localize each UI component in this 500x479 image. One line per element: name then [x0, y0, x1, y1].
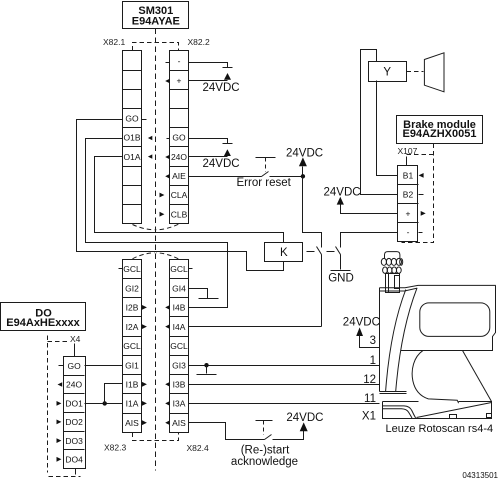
arrow at plus X82.2: [165, 79, 170, 84]
GND rail bar: [331, 270, 351, 272]
SM301 title text: [132, 5, 180, 27]
document number 04313501: [462, 471, 498, 479]
svg-text:24VDC: 24VDC: [286, 147, 323, 159]
wire 24O X82.2 to 24VDC arrow: [189, 156, 228, 158]
svg-text:GO: GO: [125, 113, 139, 123]
wire AIE to error-reset switch: [189, 176, 262, 178]
svg-text:Y: Y: [383, 66, 391, 78]
junction node DO1: [103, 401, 107, 405]
svg-text:GCL: GCL: [170, 341, 188, 351]
arrow at AIE: [165, 174, 170, 179]
arrow at I3A: [165, 401, 170, 406]
X82.1 terminal labels GO O1B O1A: [123, 113, 140, 161]
wire AIS to restart switch: [189, 423, 265, 440]
svg-text:B2: B2: [403, 190, 414, 200]
error reset pushbutton actuator: [256, 158, 276, 172]
junction node error reset: [301, 174, 305, 178]
label X107: [398, 146, 418, 156]
scanner pin labels 3 1 12 11 X1: [362, 335, 376, 422]
scanner front window arc outer: [386, 290, 406, 392]
brake symbol (cone): [424, 53, 444, 92]
scanner body right edge: [463, 286, 496, 351]
24VDC supply arrow restart: [300, 422, 308, 431]
label 24VDC restart: [286, 412, 323, 424]
X82.3 terminal labels: [123, 264, 141, 428]
svg-text:I4B: I4B: [173, 303, 186, 313]
label Y: [383, 66, 391, 78]
svg-text:X82.3: X82.3: [104, 443, 126, 453]
svg-text:(Re-)start: (Re-)start: [241, 444, 290, 456]
terminal strip X4: [64, 357, 86, 469]
arrow at I3B: [165, 382, 170, 387]
svg-text:E94AxHExxxx: E94AxHExxxx: [6, 317, 80, 329]
svg-text:DO1: DO1: [65, 398, 83, 408]
wire O1B X82.1 to I4B X82.4: [86, 139, 228, 308]
label (Re-)start acknowledge: [231, 444, 298, 468]
scanner body top edge: [380, 285, 496, 287]
dashed module bracket bottom (X82.3/X82.4): [133, 433, 179, 441]
svg-text:AIS: AIS: [125, 418, 139, 428]
label 24VDC at plus: [203, 82, 240, 94]
svg-text:I1A: I1A: [126, 399, 139, 409]
svg-text:K: K: [280, 247, 288, 259]
svg-text:X1: X1: [362, 410, 376, 422]
wire B2 up over to brake coil Y: [361, 50, 398, 195]
label GND: [328, 273, 354, 285]
stub brake minus right: [419, 232, 423, 234]
X82.2 terminal labels: [171, 56, 188, 219]
svg-text:B1: B1: [403, 171, 414, 181]
svg-text:24VDC: 24VDC: [286, 412, 323, 424]
terminal strip X82.4: [170, 260, 189, 433]
label K: [280, 247, 288, 259]
svg-text:E94AYAE: E94AYAE: [132, 15, 180, 27]
stub minus X82.2 left: [166, 62, 170, 64]
0V rail bar at GO: [223, 143, 233, 145]
label X82.3: [104, 443, 126, 453]
arrow at I1A: [142, 401, 147, 406]
wire 24VDC arrow down to junction: [302, 167, 304, 177]
stub GO X82.1 right: [142, 119, 147, 121]
label 24VDC at 24O: [203, 158, 240, 170]
wire minus X82.2 to 0V rail: [189, 63, 228, 68]
arrow at I2B: [142, 305, 147, 310]
wire junction up to I1B: [105, 384, 123, 404]
scanner base step lines: [383, 406, 416, 418]
K contact 1 blade: [317, 247, 322, 255]
wire GO X82.1 to K coil bottom: [77, 120, 284, 271]
scanner front window arc inner: [396, 288, 417, 391]
label 24VDC scanner: [343, 316, 380, 328]
24VDC supply arrow error reset: [299, 157, 307, 166]
svg-text:GCL: GCL: [123, 264, 141, 274]
wire brake plus to 24VDC arrow: [341, 205, 398, 214]
svg-text:Leuze Rotoscan rs4-4: Leuze Rotoscan rs4-4: [386, 423, 494, 435]
dashed module break curves above lower strips: [133, 253, 179, 259]
DO module title: [6, 307, 80, 329]
label 24VDC brake: [324, 187, 361, 199]
terminal strip X82.1: [123, 51, 142, 224]
svg-text:24VDC: 24VDC: [203, 158, 240, 170]
arrow at CLA: [160, 193, 165, 198]
svg-text:I3A: I3A: [173, 399, 186, 409]
svg-text:X4: X4: [70, 334, 81, 344]
scanner base foot 2: [487, 414, 492, 418]
wire GI3 junction to 0V rail: [206, 366, 208, 374]
tick below DO4: [75, 469, 77, 475]
dashed drive-module center line: [155, 29, 157, 471]
terminal strip X82.3: [123, 260, 142, 433]
wire error-reset switch to junction: [270, 176, 303, 178]
dashed module bracket top (X82.1/X82.2): [133, 43, 179, 51]
wire GI4 to 0V rail: [189, 289, 208, 299]
svg-text:11: 11: [364, 393, 376, 405]
label X4: [70, 334, 81, 344]
scanner rear slant edge: [463, 351, 492, 402]
svg-text:Error reset: Error reset: [237, 177, 292, 189]
scanner base outline: [383, 402, 492, 419]
0V rail bar at GI3: [197, 374, 217, 376]
dashed brake module outline: [402, 144, 434, 243]
0V rail bar at GI4: [199, 298, 219, 300]
arrow at DO1: [57, 401, 62, 406]
24VDC supply arrow at 24O: [224, 149, 231, 156]
svg-text:GI4: GI4: [172, 283, 186, 293]
scanner scan-head dome: [412, 351, 458, 404]
wire 24VDC to scanner pin 3: [360, 336, 380, 348]
24VDC supply arrow at plus: [224, 73, 231, 80]
scanner connector nut ring 1: [381, 258, 402, 265]
Leuze Rotoscan rs4-4 laser scanner: [380, 252, 496, 419]
arrow at O1B: [148, 136, 152, 140]
svg-text:+: +: [177, 75, 182, 85]
terminal strip X82.2: [170, 51, 189, 224]
svg-text:24VDC: 24VDC: [203, 82, 240, 94]
wire restart switch to 24VDC arrow: [273, 431, 304, 440]
arrow at DO3: [57, 438, 62, 443]
Brake module box: [397, 116, 483, 144]
arrow at 24O X4: [58, 382, 63, 387]
X4 terminal labels: [65, 361, 83, 465]
wire brake minus to K contact 2: [341, 233, 398, 248]
svg-text:X82.4: X82.4: [187, 443, 209, 453]
relay coil K: [265, 243, 303, 262]
label Leuze Rotoscan rs4-4: [386, 423, 494, 435]
restart contact blade: [265, 435, 272, 440]
scanner base foot 1: [450, 415, 457, 419]
wire K contact 2 to GND: [340, 255, 342, 270]
arrow at O1A: [148, 154, 152, 158]
24VDC supply arrow brake: [337, 197, 344, 205]
terminal strip X107: [398, 166, 419, 242]
arrow at I4B: [165, 305, 170, 310]
svg-text:I2A: I2A: [126, 322, 139, 332]
wire junction down to K contact 1 feed: [303, 177, 322, 248]
wire GI3 to scanner pin 1: [189, 365, 380, 367]
arrow at CLB: [160, 212, 165, 217]
Brake module title: [403, 119, 477, 140]
dashed module break curves below upper strips: [133, 224, 179, 230]
tick X4 bracket to strip: [74, 344, 76, 357]
DO module box: [1, 303, 86, 331]
svg-text:GI3: GI3: [172, 360, 186, 370]
svg-text:GO: GO: [172, 133, 186, 143]
svg-text:3: 3: [370, 335, 376, 347]
svg-text:O1A: O1A: [123, 152, 140, 162]
svg-text:I3B: I3B: [173, 380, 186, 390]
arrow at 24O X82.2: [165, 155, 170, 160]
svg-text:GI1: GI1: [125, 360, 139, 370]
svg-text:E94AZHX0051: E94AZHX0051: [403, 128, 477, 140]
scanner connector stem: [386, 274, 400, 293]
wire K contact 1 down to I4A: [321, 255, 323, 327]
SM301 module box U1: [123, 2, 189, 29]
svg-text:acknowledge: acknowledge: [231, 456, 298, 468]
scanner shelf lines: [380, 391, 407, 393]
wire Y down to B1: [377, 81, 398, 176]
scanner top panel (rounded): [420, 303, 490, 337]
X82.4 terminal labels: [170, 264, 188, 428]
svg-text:CLB: CLB: [171, 209, 188, 219]
svg-text:-: -: [178, 56, 181, 66]
label 24VDC error reset: [286, 147, 323, 159]
wire plus X82.2 to 24VDC arrow: [189, 80, 228, 82]
wire O1A X82.1 to K coil top: [95, 157, 284, 243]
svg-text:O1B: O1B: [123, 133, 140, 143]
dashed link Y to brake: [407, 71, 424, 73]
error reset contact blade: [262, 172, 269, 177]
junction node GI3: [204, 363, 208, 367]
svg-text:24VDC: 24VDC: [324, 187, 361, 199]
arrow at AIS X82.4: [165, 420, 170, 425]
arrow at I4A: [165, 324, 170, 329]
arrow at brake plus: [421, 211, 426, 216]
dashed DO module outline: [48, 336, 81, 477]
svg-text:12: 12: [363, 374, 376, 386]
svg-text:GND: GND: [328, 273, 354, 285]
svg-text:CLA: CLA: [171, 190, 188, 200]
scanner body left edge: [379, 288, 381, 392]
wire I3B to scanner pin 12: [189, 384, 380, 386]
X107 terminal labels: [403, 171, 414, 237]
wire GO X4 to GI1 X82.3: [85, 365, 123, 367]
svg-text:1: 1: [370, 355, 376, 367]
arrow at DO2: [57, 420, 62, 425]
stub B2 right: [419, 194, 424, 196]
svg-text:GI2: GI2: [125, 283, 139, 293]
svg-text:-: -: [407, 227, 410, 237]
svg-text:04313501: 04313501: [462, 471, 498, 479]
svg-text:DO4: DO4: [65, 455, 83, 465]
svg-text:AIS: AIS: [172, 418, 186, 428]
K contact 2 blade: [336, 247, 341, 255]
scanner base slant: [417, 403, 492, 418]
stub GO X82.2 left: [167, 138, 170, 140]
svg-text:X82.2: X82.2: [188, 37, 210, 47]
svg-text:24VDC: 24VDC: [343, 316, 380, 328]
dashed mechanical link K to contacts: [307, 251, 315, 253]
wire GO X82.2 to 0V rail: [189, 139, 228, 144]
wire DO1 to I1A with junction: [85, 403, 123, 405]
arrow at AIS X82.3: [142, 420, 147, 425]
svg-text:I4A: I4A: [173, 322, 186, 332]
label X82.1: [103, 37, 125, 47]
svg-text:24O: 24O: [66, 380, 82, 390]
label X82.2: [188, 37, 210, 47]
wire I4A to K contact 1: [189, 326, 322, 328]
label Error reset: [237, 177, 292, 189]
svg-text:GCL: GCL: [123, 341, 141, 351]
stub GCL X82.3 left: [119, 268, 123, 270]
brake coil Y box: [369, 62, 407, 82]
stub GO X4 left: [59, 365, 64, 367]
scanner connector cap: [385, 252, 400, 259]
0V rail bar at minus: [223, 67, 233, 69]
svg-text:GO: GO: [67, 361, 81, 371]
scanner connector nut ring 2: [383, 267, 402, 273]
wire I3A to scanner pin 11: [189, 403, 380, 405]
svg-text:+: +: [406, 209, 411, 219]
scanner mid ledge line: [401, 350, 463, 352]
svg-text:X82.1: X82.1: [103, 37, 125, 47]
arrow at I1B: [142, 382, 147, 387]
svg-text:I1B: I1B: [126, 380, 139, 390]
24VDC supply arrow scanner pin 3: [356, 327, 363, 336]
svg-text:24O: 24O: [171, 152, 187, 162]
dashed bracket X107: [407, 155, 434, 166]
stub GCL X82.4 right: [189, 268, 193, 270]
arrow at B1: [419, 173, 424, 178]
label X82.4: [187, 443, 209, 453]
svg-text:DO2: DO2: [65, 417, 83, 427]
svg-text:GCL: GCL: [170, 264, 188, 274]
svg-text:AIE: AIE: [172, 171, 186, 181]
svg-text:DO3: DO3: [65, 436, 83, 446]
arrow at I2A: [142, 324, 147, 329]
svg-text:I2B: I2B: [126, 303, 139, 313]
restart pushbutton actuator: [256, 421, 273, 435]
arrow at DO4: [57, 457, 62, 462]
